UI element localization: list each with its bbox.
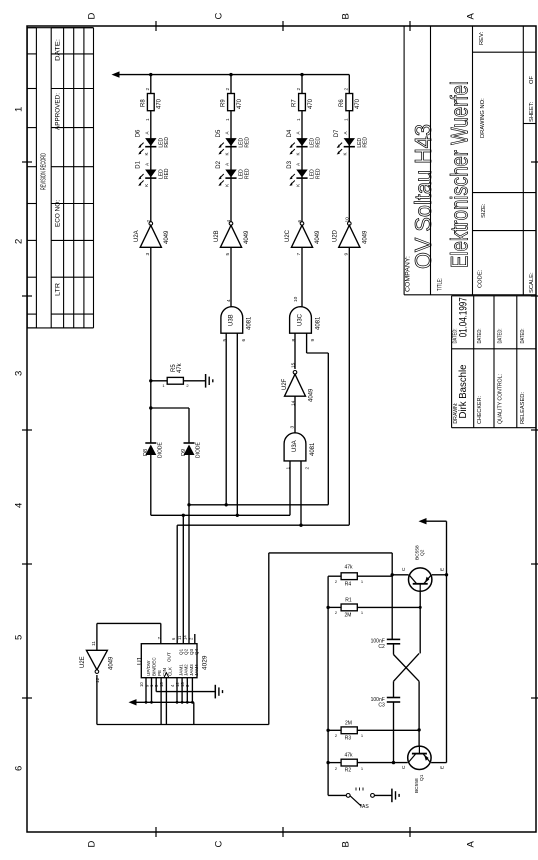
svg-text:10: 10 (139, 682, 144, 687)
svg-text:2M: 2M (345, 721, 352, 727)
svg-text:U3C: U3C (297, 313, 303, 326)
wire CIN down (160, 686, 162, 725)
inverter U2A 4049 (140, 222, 161, 248)
svg-text:4: 4 (226, 299, 232, 302)
svg-text:A: A (225, 131, 230, 134)
svg-text:12: 12 (95, 677, 101, 683)
LED D7 (337, 138, 355, 154)
svg-text:9: 9 (343, 253, 349, 256)
wire VCC rail (118, 74, 349, 76)
AND gate U3B 4081 (221, 307, 243, 334)
resistor R8 470 (147, 94, 154, 111)
svg-text:4029: 4029 (202, 655, 209, 670)
U1 CLK wedge (164, 673, 169, 678)
svg-text:1: 1 (145, 118, 151, 121)
C2 wires (391, 575, 393, 640)
svg-text:47k: 47k (177, 362, 183, 373)
svg-text:OUT: OUT (166, 652, 171, 662)
svg-text:UP/DW: UP/DW (146, 660, 151, 676)
svg-text:QUALITY CONTROL:: QUALITY CONTROL: (498, 374, 504, 424)
svg-text:4081: 4081 (310, 442, 316, 456)
wire chain 2 vertical (230, 75, 232, 222)
svg-text:7: 7 (157, 637, 163, 640)
svg-text:47k: 47k (344, 753, 353, 759)
svg-text:U1: U1 (137, 656, 144, 665)
junction left rail R1 (326, 606, 329, 609)
wire UP/DW to VCC line (145, 686, 147, 702)
wire U3B input5 (225, 333, 227, 505)
svg-text:CIN: CIN (162, 668, 167, 676)
inverter U2C 4049 (291, 222, 312, 248)
junction JAM3 (186, 701, 189, 704)
svg-text:RED: RED (164, 137, 170, 148)
svg-text:SHEET:: SHEET: (529, 101, 535, 122)
svg-text:D: D (86, 841, 97, 848)
wire U3C input8 (294, 333, 296, 369)
ground at switch (392, 789, 399, 803)
LED D3 (289, 170, 307, 186)
svg-text:C2: C2 (378, 644, 385, 650)
wire switch left (328, 794, 346, 796)
resistor R3 2M2 (Q1 base) (341, 727, 357, 734)
svg-text:4049: 4049 (362, 230, 368, 244)
resistor R9 470 (228, 94, 235, 111)
svg-text:K: K (224, 184, 229, 187)
svg-text:5: 5 (225, 253, 231, 256)
diode D9 (184, 443, 195, 455)
title block grid (404, 26, 536, 295)
LED D6 (138, 138, 156, 154)
wire chain1 inverter input to D8 (150, 247, 152, 442)
wire U2F input (294, 396, 296, 433)
svg-text:R9: R9 (221, 99, 227, 107)
svg-text:C: C (401, 567, 407, 571)
svg-text:1: 1 (361, 579, 364, 584)
svg-text:Q2: Q2 (419, 549, 425, 556)
svg-text:3: 3 (13, 371, 24, 376)
capacitor C3 100nF (387, 698, 400, 703)
svg-text:K: K (295, 152, 300, 155)
C3 wires (393, 681, 395, 697)
junction C3 Q1 collector (392, 761, 395, 764)
svg-text:A: A (144, 163, 149, 166)
junction Q2 collector node (391, 573, 394, 576)
junction net C U3A in2 (299, 524, 302, 527)
wire D9 branch vertical (188, 408, 190, 443)
resistor R1 2M2 (Q2 base) (341, 604, 357, 611)
svg-text:OV Soltau H43: OV Soltau H43 (410, 124, 436, 269)
svg-text:4081: 4081 (247, 316, 253, 330)
svg-text:1: 1 (285, 467, 291, 470)
R3 wires (328, 729, 341, 731)
svg-text:D4: D4 (287, 129, 293, 137)
wire U2E output clock line (96, 675, 98, 725)
junction chain1 D9 branch (149, 406, 152, 409)
junction rail chain2 (229, 73, 232, 76)
svg-text:D: D (86, 13, 97, 20)
svg-text:A: A (225, 163, 230, 166)
svg-text:C: C (213, 841, 224, 848)
svg-text:E: E (439, 568, 445, 571)
svg-text:K: K (144, 152, 149, 155)
inverter U2D 4049 (339, 222, 360, 248)
svg-text:U2B: U2B (214, 230, 220, 242)
svg-text:R4: R4 (345, 582, 352, 588)
svg-text:CLK: CLK (167, 666, 172, 676)
svg-text:1: 1 (296, 118, 302, 121)
junction JAM4 (191, 701, 194, 704)
wire U3C input9 jog (306, 333, 308, 353)
svg-text:U2D: U2D (332, 229, 338, 242)
svg-text:TITLE:: TITLE: (437, 278, 444, 291)
left rail multivibrator (327, 576, 329, 795)
svg-text:R8: R8 (140, 99, 146, 107)
IC U1 4029 body (141, 644, 197, 678)
svg-text:C: C (401, 765, 407, 769)
drawn/checked table grid (452, 296, 536, 428)
svg-text:470: 470 (237, 98, 243, 109)
svg-text:2: 2 (335, 579, 338, 584)
svg-text:CHECKER:: CHECKER: (477, 396, 483, 424)
svg-text:DATED:: DATED: (477, 329, 483, 344)
Q2 collector wire (392, 574, 408, 576)
transistor Q2 BC558 (409, 568, 432, 591)
wire R5 left (151, 380, 167, 382)
VCC arrow multivibrator (419, 518, 427, 524)
svg-text:4049: 4049 (164, 230, 170, 244)
svg-text:470: 470 (355, 98, 361, 109)
svg-text:DATE:: DATE: (56, 39, 62, 61)
svg-text:Q4: Q4 (194, 648, 199, 655)
wire D8 anode down (150, 455, 152, 515)
svg-text:1: 1 (162, 383, 165, 388)
svg-text:APPROVED:: APPROVED: (56, 93, 62, 130)
svg-text:D6: D6 (136, 129, 142, 137)
capacitor C2 100nF (387, 639, 400, 643)
svg-text:RED: RED (244, 168, 250, 179)
svg-text:2: 2 (343, 88, 349, 91)
svg-text:R2: R2 (345, 768, 352, 774)
junction JAM2 (181, 701, 184, 704)
junction chain1 R5 (149, 379, 152, 382)
U1 bottom stubs (145, 678, 147, 686)
svg-text:B: B (340, 13, 351, 19)
junction rail chain1 (149, 73, 152, 76)
svg-text:U2C: U2C (285, 229, 291, 242)
svg-text:RED: RED (164, 168, 170, 179)
wire Q1 base vertical (418, 681, 420, 746)
junction net A U3B in5 (225, 503, 228, 506)
resistor R4 47k (Q2 collector) (341, 573, 357, 580)
svg-text:1: 1 (225, 118, 231, 121)
svg-text:LTR: LTR (56, 282, 62, 296)
inverter U2F 4049 (285, 371, 306, 397)
svg-text:RELEASED:: RELEASED: (520, 392, 526, 424)
wire R5 to ground (183, 380, 205, 382)
junction net B U3B in6 (236, 514, 239, 517)
svg-text:U3A: U3A (292, 440, 298, 452)
svg-text:5: 5 (13, 635, 24, 640)
inverter U2B 4049 (220, 222, 241, 248)
svg-text:2M: 2M (345, 613, 352, 619)
svg-text:Elektronischer Wuerfel: Elektronischer Wuerfel (446, 81, 473, 268)
svg-text:K: K (144, 184, 149, 187)
svg-text:4049: 4049 (244, 230, 250, 244)
svg-text:REVISION RECORD: REVISION RECORD (38, 153, 47, 190)
wire U3A input2 (300, 461, 302, 525)
svg-text:3: 3 (145, 253, 151, 256)
svg-text:6: 6 (241, 339, 247, 342)
wire D9 branch horizontal (151, 407, 189, 409)
svg-text:6: 6 (13, 766, 24, 771)
svg-text:R7: R7 (292, 99, 298, 107)
AND gate U3C 4081 (290, 307, 312, 334)
svg-text:D7: D7 (334, 129, 340, 137)
svg-text:1: 1 (361, 733, 364, 738)
svg-text:4081: 4081 (315, 316, 321, 330)
svg-text:A: A (144, 131, 149, 134)
R4 wires (328, 575, 341, 577)
svg-text:Dirk Baschle: Dirk Baschle (458, 364, 469, 418)
svg-text:R1: R1 (345, 598, 352, 604)
svg-text:D2: D2 (216, 160, 222, 168)
svg-text:U2A: U2A (134, 230, 140, 242)
svg-text:8: 8 (291, 339, 297, 342)
svg-text:6: 6 (171, 637, 176, 640)
svg-text:A: A (296, 131, 301, 134)
svg-text:D1: D1 (136, 160, 142, 168)
wire VCC line corner down (193, 702, 195, 724)
resistor R6 470 (346, 94, 353, 111)
svg-text:14: 14 (183, 635, 188, 640)
svg-text:4: 4 (13, 503, 24, 508)
svg-text:2: 2 (13, 239, 24, 244)
R2 wires (328, 762, 341, 764)
junction rail chain3 (300, 73, 303, 76)
svg-text:A: A (465, 13, 476, 20)
wire chain 1 vertical (150, 75, 152, 222)
wire switch to ground (375, 794, 392, 796)
transistor Q1 BC558 (408, 746, 431, 769)
svg-text:4049: 4049 (315, 230, 321, 244)
cross coupling diagonals (394, 655, 420, 682)
Q2 emitter wire (432, 574, 447, 576)
resistor R2 47k (Q1 collector) (341, 759, 357, 766)
svg-text:4049: 4049 (308, 388, 314, 402)
wire Q1 vertical (176, 525, 178, 644)
wire U3A input1 (289, 461, 291, 515)
wire Q2 vertical (182, 515, 184, 643)
svg-text:47k: 47k (344, 565, 353, 571)
svg-text:D9: D9 (181, 449, 187, 456)
junction Q2 emitter rail (445, 573, 448, 576)
svg-text:RED: RED (315, 168, 321, 179)
wire net C (Q1) horizontal (177, 524, 349, 526)
svg-text:R3: R3 (345, 736, 352, 742)
junction net B Q2 (182, 514, 185, 517)
svg-text:DATED:: DATED: (520, 329, 526, 344)
LED D2 (218, 170, 236, 186)
LED D5 (218, 138, 236, 154)
svg-text:CODE:: CODE: (478, 269, 484, 288)
svg-text:U2E: U2E (80, 656, 86, 668)
wire net B (Q2/D8) horizontal (151, 514, 290, 516)
svg-text:DIODE: DIODE (196, 442, 202, 459)
svg-text:15: 15 (290, 362, 296, 368)
svg-text:D5: D5 (216, 129, 222, 137)
svg-text:1: 1 (361, 610, 364, 615)
svg-text:9: 9 (310, 339, 316, 342)
junction left rail R3 (326, 729, 329, 732)
svg-text:01.04.1997: 01.04.1997 (457, 297, 469, 337)
wire JAM pins to VCC line (176, 686, 178, 702)
wire U2E input from U1 OUT (96, 623, 98, 650)
Q2 base wire down (419, 591, 421, 653)
svg-text:D8: D8 (143, 449, 149, 456)
svg-text:DATED:: DATED: (498, 329, 504, 344)
svg-text:RED: RED (315, 137, 321, 148)
wire chain3 inverter input to U3C output (301, 247, 303, 307)
switch TAS (346, 794, 350, 798)
wire D9 anode down (to Q3 node) (188, 455, 190, 644)
svg-text:2: 2 (225, 88, 231, 91)
svg-text:JAM4: JAM4 (194, 664, 199, 676)
diode D8 (145, 443, 156, 455)
wire net A (Q3/D9) horizontal (189, 504, 328, 506)
wire VCC line U1 (135, 701, 194, 703)
svg-text:TAS: TAS (359, 804, 369, 810)
junction net A D9/Q3 (187, 503, 190, 506)
svg-text:REV:: REV: (479, 31, 485, 45)
wire BIN/DEC to VCC line (151, 686, 153, 702)
svg-text:OF: OF (529, 75, 535, 84)
junction Q2 base R line (419, 606, 422, 609)
svg-text:B: B (340, 841, 351, 847)
svg-text:470: 470 (308, 98, 314, 109)
svg-text:DIODE: DIODE (157, 442, 163, 459)
LED D1 (138, 170, 156, 186)
svg-text:U2F: U2F (282, 378, 288, 390)
svg-text:10: 10 (293, 296, 299, 302)
VCC arrow at U1 (129, 699, 137, 705)
svg-text:2: 2 (146, 220, 152, 223)
svg-text:A: A (465, 841, 476, 848)
wire U3B input6 (236, 333, 238, 515)
svg-text:5: 5 (222, 339, 228, 342)
svg-text:1: 1 (13, 107, 24, 112)
svg-text:K: K (343, 152, 348, 155)
resistor R5 47k (167, 377, 183, 384)
svg-text:SCALE:: SCALE: (529, 272, 535, 293)
svg-text:K: K (295, 184, 300, 187)
svg-text:RED: RED (244, 137, 250, 148)
svg-text:2: 2 (335, 610, 338, 615)
svg-text:3: 3 (289, 426, 295, 429)
Q1 emitter wire (431, 762, 446, 764)
AND gate U3A 4081 (284, 433, 306, 461)
inverter U2E 4049 (86, 650, 107, 673)
LED D4 (289, 138, 307, 154)
svg-text:4049: 4049 (108, 656, 114, 670)
wire VCC to emitter rail (426, 520, 447, 522)
svg-text:11: 11 (91, 641, 97, 646)
svg-text:K: K (224, 152, 229, 155)
svg-text:470: 470 (157, 98, 163, 109)
svg-text:ECO NO:: ECO NO: (56, 200, 62, 227)
svg-text:R6: R6 (339, 99, 345, 107)
junction UP/DW (145, 701, 148, 704)
junction Q1 base R3 (417, 728, 420, 731)
svg-text:C3: C3 (378, 702, 385, 708)
svg-text:SIZE:: SIZE: (481, 203, 487, 218)
junction BIN/DEC (150, 701, 153, 704)
svg-text:A: A (343, 131, 348, 134)
revision record table grid (27, 28, 93, 328)
svg-text:4: 4 (226, 220, 232, 223)
ground at R5 (206, 374, 213, 388)
wire chain 4 vertical (348, 75, 350, 222)
svg-text:2: 2 (304, 467, 310, 470)
VCC arrow top rail (112, 71, 120, 77)
junction JAM1 (176, 701, 179, 704)
svg-text:RED: RED (363, 137, 369, 148)
svg-text:1: 1 (343, 118, 349, 121)
switch actuation marks (356, 788, 363, 791)
wire chain2 inverter input to U3B output (230, 247, 232, 307)
resistor R7 470 (299, 94, 306, 111)
svg-text:E: E (439, 766, 445, 769)
ground at U1 PE (215, 685, 222, 699)
svg-text:2: 2 (335, 766, 338, 771)
wire PE to ground (155, 686, 157, 692)
svg-text:1: 1 (361, 766, 364, 771)
svg-text:6: 6 (297, 220, 303, 223)
U1 Q4 stub (194, 634, 196, 644)
svg-text:2: 2 (296, 88, 302, 91)
svg-text:U3B: U3B (229, 314, 235, 326)
svg-text:7: 7 (296, 253, 302, 256)
svg-text:A: A (296, 163, 301, 166)
svg-text:DRAWING NO:: DRAWING NO: (480, 98, 486, 138)
svg-text:11: 11 (177, 635, 182, 640)
junction left rail R2 (326, 761, 329, 764)
svg-text:D3: D3 (287, 160, 293, 168)
svg-text:2: 2 (145, 88, 151, 91)
wire CLK down (165, 686, 167, 725)
svg-text:2: 2 (335, 733, 338, 738)
svg-text:10: 10 (344, 217, 350, 223)
R1 wires (328, 606, 341, 608)
svg-text:2: 2 (186, 383, 189, 388)
svg-text:C: C (213, 13, 224, 20)
svg-text:Q1: Q1 (419, 774, 425, 781)
wire chain4 inverter input down to Q1 line (348, 247, 350, 525)
wire chain 3 vertical (301, 75, 303, 222)
